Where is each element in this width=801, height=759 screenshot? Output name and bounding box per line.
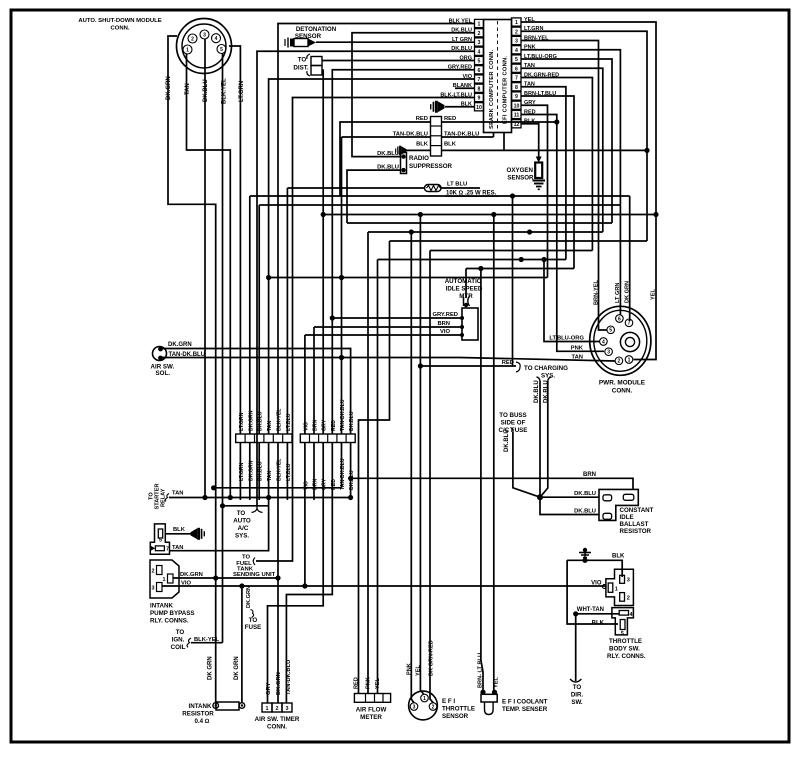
pin 3 of J1 xyxy=(200,30,209,39)
svg-text:GRY: GRY xyxy=(322,419,328,431)
junction dot h497 at DK.BLU drop xyxy=(202,495,207,500)
svg-text:RED: RED xyxy=(354,677,360,689)
red junction block (4-cell) xyxy=(431,117,442,157)
junction dot B3 throttle-sensor YEL xyxy=(418,212,423,217)
svg-text:SENSOR: SENSOR xyxy=(507,175,534,182)
wire GRY efi pin10 down to bus B10 xyxy=(521,105,548,277)
svg-text:10: 10 xyxy=(514,103,520,109)
svg-text:E F I COOLANT: E F I COOLANT xyxy=(502,699,548,706)
svg-text:MTR: MTR xyxy=(459,293,473,300)
svg-text:1: 1 xyxy=(163,577,166,583)
throttle sensor pin 2 xyxy=(429,703,437,711)
svg-text:4: 4 xyxy=(602,339,605,345)
svg-text:CONSTANT: CONSTANT xyxy=(620,507,654,514)
svg-text:BLK: BLK xyxy=(173,527,186,533)
svg-text:DK GRN: DK GRN xyxy=(625,281,631,303)
svg-text:TAN: TAN xyxy=(172,491,183,497)
svg-text:BLK: BLK xyxy=(416,141,429,147)
wire RED efi pin11 down to pwr module PNK line xyxy=(521,115,604,352)
svg-text:IGN.: IGN. xyxy=(172,637,185,644)
wire ORG spark pin5 to to-dist upper box xyxy=(322,60,474,62)
svg-text:RLY. CONNS.: RLY. CONNS. xyxy=(607,653,646,660)
resistor 10K ohm body xyxy=(425,185,442,192)
throttle body pin 4 slot xyxy=(619,611,628,616)
fuel tank hook xyxy=(253,558,255,566)
svg-text:11: 11 xyxy=(514,113,520,119)
wire YEL branch B3 to throttle pin1 xyxy=(420,215,423,695)
svg-text:RED: RED xyxy=(331,420,337,431)
wire DK.BLU spark pin2 to radio suppressor top xyxy=(352,33,474,157)
svg-text:1: 1 xyxy=(615,587,618,593)
wire LT.GRN efi pin2 down to bus B6 xyxy=(521,31,647,241)
svg-text:BLK.YEL: BLK.YEL xyxy=(222,78,228,104)
svg-text:2: 2 xyxy=(432,704,435,710)
to-dist connector boxes xyxy=(307,54,310,59)
wire DK.GRN-RED efi pin7 down to bus B7 xyxy=(521,78,592,251)
wire DK.BLU charging 2 down to ballast junction xyxy=(548,377,552,381)
svg-text:DK GRN: DK GRN xyxy=(234,656,240,680)
wire VIO pump bypass pin3 to throttle body sw pin1 xyxy=(162,585,607,587)
svg-text:3: 3 xyxy=(478,40,481,46)
junction dot ballast DK.BLU node xyxy=(537,494,543,500)
svg-text:DIR.: DIR. xyxy=(571,692,584,699)
svg-text:1: 1 xyxy=(423,696,426,702)
throttle body pin 5 slot xyxy=(620,620,625,630)
svg-text:6: 6 xyxy=(478,68,481,74)
svg-text:2: 2 xyxy=(618,359,621,365)
svg-text:5: 5 xyxy=(159,538,162,544)
junction dot B8 left xyxy=(519,257,524,262)
svg-text:5: 5 xyxy=(478,59,481,65)
junction dot VIO row2 branch xyxy=(302,583,307,588)
to buss hook xyxy=(511,428,514,433)
wire DK.BLU suppressor bottom to bus B4 xyxy=(347,170,401,223)
svg-text:GRY: GRY xyxy=(266,683,272,695)
svg-text:DK.GRN: DK.GRN xyxy=(166,76,172,100)
bus wire B10 relay col to efi GRY xyxy=(269,277,548,279)
svg-text:4: 4 xyxy=(515,48,518,54)
svg-text:TEMP. SENSER: TEMP. SENSER xyxy=(502,706,548,713)
svg-text:EFI COMPUTER CONN.: EFI COMPUTER CONN. xyxy=(503,56,509,124)
junction dot VIO fuse branch xyxy=(239,583,244,588)
svg-text:CONN.: CONN. xyxy=(111,26,130,32)
svg-text:BLK: BLK xyxy=(592,621,605,627)
throttle body sw upper connector body xyxy=(606,569,634,605)
wire YEL efi pin1 to pwr module pin1 xyxy=(521,22,656,360)
relay pin 5 slot xyxy=(158,529,162,538)
svg-text:2: 2 xyxy=(627,596,630,602)
svg-text:DIST.: DIST. xyxy=(293,65,308,72)
svg-text:YEL: YEL xyxy=(375,678,381,689)
wire LT.BLU-ORG riser to pwr module pin4 xyxy=(544,260,600,342)
svg-text:VIO: VIO xyxy=(591,581,602,587)
junction dot h487 left xyxy=(211,485,216,490)
oxygen sensor body xyxy=(536,157,542,163)
svg-text:ORG: ORG xyxy=(459,55,472,61)
svg-text:IDLE SPEED: IDLE SPEED xyxy=(446,286,483,293)
wire DK.BLU charging 1 down to ballast junction xyxy=(537,377,541,381)
wire TAN starter relay line h497 xyxy=(169,497,351,499)
junction dot RED block tie xyxy=(554,119,559,124)
junction dot B9 coolant BRN-LT.BLU xyxy=(478,266,483,271)
svg-text:DK GRN: DK GRN xyxy=(208,656,214,680)
svg-text:5: 5 xyxy=(621,631,624,637)
svg-text:PWR. MODULE: PWR. MODULE xyxy=(599,380,646,387)
svg-text:4: 4 xyxy=(215,36,218,42)
automatic idle speed motor body xyxy=(462,308,478,340)
svg-text:1: 1 xyxy=(266,706,269,712)
constant idle ballast resistor body (L-shape) xyxy=(599,489,638,520)
pwr module pin 6 xyxy=(616,315,624,323)
bus wire B8 airflow YEL to efi TAN8 xyxy=(378,259,566,261)
svg-text:LT GRN: LT GRN xyxy=(615,283,621,303)
wire GRY below row2 to timer pin1 xyxy=(268,443,324,704)
junction dot B5 charging DK.BLU xyxy=(527,229,532,234)
svg-text:METER: METER xyxy=(360,714,382,721)
wire BLK.YEL from J1 pin5 to ignition coil xyxy=(222,53,224,643)
wire stub spark box bottom to TAN-DK.BLU xyxy=(493,133,495,138)
wire BLANK stub spark pin8 xyxy=(455,87,474,89)
wire BLK spark pin10 to capacitor xyxy=(445,106,474,108)
wire DK.GRN air sw sol to row2 pos6 xyxy=(162,349,351,435)
detonation sensor symbol xyxy=(285,38,316,48)
bus wire B7 throttle pin2 to efi DK.GRN-RED xyxy=(430,250,592,252)
bus wire B2 row1-pos3 xyxy=(259,204,620,206)
svg-text:DK.BLU: DK.BLU xyxy=(574,508,596,514)
svg-text:4: 4 xyxy=(478,49,481,55)
throttle body ground xyxy=(579,553,591,558)
wire BRN-YEL efi pin3 down to pwr module pin5 xyxy=(521,41,607,331)
pwr module pin 3 xyxy=(605,348,613,356)
wire VIO to idle speed motor xyxy=(305,334,462,336)
bus wire B6 airflow RED to efi LT.GRN xyxy=(390,240,648,242)
wire GRY.RED spark pin6 down to row2 pos4 xyxy=(332,70,474,434)
svg-text:TO: TO xyxy=(242,555,250,561)
svg-text:9: 9 xyxy=(515,94,518,100)
svg-text:5: 5 xyxy=(515,57,518,63)
svg-text:RED: RED xyxy=(444,116,456,122)
svg-text:E F I: E F I xyxy=(442,698,455,705)
spark/efi computer connector body xyxy=(484,20,512,133)
svg-text:LT.BLU-ORG: LT.BLU-ORG xyxy=(549,336,584,342)
junction dot h506 left xyxy=(220,503,225,508)
junction dot on BLK-YEL at DK.GRN pump line xyxy=(275,575,280,580)
throttle body pin 3 slot xyxy=(620,575,625,583)
svg-text:SPARK COMPUTER CONN.: SPARK COMPUTER CONN. xyxy=(489,49,495,129)
wire BLK ground to throttle body pin3 xyxy=(567,560,622,577)
pwr module center post xyxy=(620,332,639,351)
svg-text:RESISTOR: RESISTOR xyxy=(182,711,214,718)
svg-text:VIO: VIO xyxy=(303,422,309,431)
wire row2 pos5 riser xyxy=(341,137,343,434)
wire DK.GRN from J1 left to pump bypass / intank resistor xyxy=(168,36,216,703)
wire TAN-DK.BLU below row2 to junction line xyxy=(341,443,343,488)
svg-text:7: 7 xyxy=(628,321,631,327)
svg-text:BRN: BRN xyxy=(437,321,450,327)
svg-text:DK.BLU: DK.BLU xyxy=(574,491,596,497)
relay connector body (pins 5,7) xyxy=(150,524,169,554)
wire DK.BLU below row1 stub xyxy=(258,443,260,501)
wire DK.BLU buss to ballast junction xyxy=(513,432,540,497)
air sw timer connector body xyxy=(262,703,272,712)
svg-text:3: 3 xyxy=(607,350,610,356)
bus wire B3 (YEL net) to pwr module YEL xyxy=(323,214,656,216)
wire branch B5 to throttle sensor pin3 xyxy=(411,232,414,703)
svg-text:SIDE OF: SIDE OF xyxy=(501,420,526,427)
svg-text:IDLE: IDLE xyxy=(620,514,634,521)
junction wire h487 xyxy=(214,487,342,489)
svg-text:8: 8 xyxy=(515,85,518,91)
svg-text:3: 3 xyxy=(152,586,155,592)
svg-text:3: 3 xyxy=(515,39,518,45)
svg-text:AUTOMATIC: AUTOMATIC xyxy=(445,278,482,285)
svg-text:6: 6 xyxy=(515,66,518,72)
svg-text:BRN-YEL: BRN-YEL xyxy=(594,280,600,305)
wire TAN efi pin8 down to bus B8 xyxy=(521,87,566,260)
svg-text:PNK: PNK xyxy=(571,345,584,351)
wire TAN-DK.BLU left of block to row2 pos5 col xyxy=(342,136,431,138)
wire LT.GRN from J1 to connector row 1 pos1 xyxy=(229,46,240,434)
wire BLK bus xyxy=(442,149,648,151)
svg-text:TAN-DK.BLU: TAN-DK.BLU xyxy=(286,660,292,695)
svg-text:SOL.: SOL. xyxy=(156,370,171,377)
svg-text:SW.: SW. xyxy=(571,699,583,706)
wire LT.BLU-ORG efi pin5 down to bus B4 xyxy=(521,59,612,223)
svg-text:TAN: TAN xyxy=(185,83,191,95)
svg-text:DK.BLU: DK.BLU xyxy=(377,151,399,157)
svg-text:BLK: BLK xyxy=(444,141,457,147)
wire BRN-LT.BLU efi pin9 down to bus B9 xyxy=(521,96,574,269)
svg-text:1: 1 xyxy=(628,357,631,363)
junction dot B10 on TAN-DK.BLU column xyxy=(339,275,344,280)
junction dot TAN-DK.BLU to row2 pos5 xyxy=(339,355,344,360)
wire VIO spark pin7 to row1 pos4 xyxy=(269,79,474,434)
junction dot GRY.RED col at motor line xyxy=(330,315,335,320)
ign coil hook xyxy=(187,638,191,647)
bus wire B1 (BRN-YEL net) row1-pos2 to efi pin3 xyxy=(250,195,630,197)
junction dot YEL bus xyxy=(653,212,658,217)
svg-text:THROTTLE: THROTTLE xyxy=(442,706,475,713)
pwr module connector body xyxy=(590,306,651,375)
svg-text:7: 7 xyxy=(166,546,169,552)
svg-text:3: 3 xyxy=(627,578,630,584)
svg-text:2: 2 xyxy=(191,36,194,42)
svg-text:CONN.: CONN. xyxy=(267,724,287,731)
wire RED below row2 to timer pin3 xyxy=(286,443,332,704)
wire BLK down-left to pin5 xyxy=(567,560,618,624)
svg-text:DK.GRN: DK.GRN xyxy=(248,410,254,431)
wire PNK efi pin4 down through B2 to pwr module pin6 xyxy=(521,50,620,315)
wire DK.BLU from J1 pin3 down xyxy=(204,39,206,498)
svg-text:SYS.: SYS. xyxy=(235,533,249,540)
to charging hook xyxy=(516,362,520,372)
wire BLK efi pin12 down to oxygen sensor xyxy=(521,124,539,158)
junction dot WHT-TAN at dir-sw riser xyxy=(573,611,578,616)
pump bypass pin 3 xyxy=(157,583,163,592)
svg-text:YEL: YEL xyxy=(494,677,500,688)
air sw solenoid body xyxy=(153,347,167,361)
wire BLK relay to capacitor xyxy=(165,533,191,535)
wire branch B3 to coolant sensor pin2 xyxy=(493,215,495,692)
svg-text:TO BUSS: TO BUSS xyxy=(499,412,526,419)
wire branch B9 to coolant sensor pin1 xyxy=(481,269,483,692)
junction dot h497 right xyxy=(348,495,353,500)
svg-text:PNK: PNK xyxy=(366,677,372,689)
throttle body pin 2 slot xyxy=(620,593,625,602)
spark computer connector pin column (pins 1-10) xyxy=(475,19,484,27)
pin 4 of J1 xyxy=(212,34,221,43)
svg-text:DK.BLU: DK.BLU xyxy=(203,79,209,102)
efi throttle sensor body xyxy=(409,691,438,720)
svg-text:5: 5 xyxy=(220,47,223,53)
wire WHT-TAN to pin4 xyxy=(576,613,620,615)
svg-text:BLK-YEL: BLK-YEL xyxy=(277,408,283,431)
bus wire B9 idle-speed-mtr to efi BRN-LT.BLU xyxy=(466,268,574,270)
wire BRN row2 pos6 to ballast resistor xyxy=(351,478,633,489)
wire VIO below row2 to throttle-body VIO line xyxy=(304,443,306,587)
wire BLK YEL spark pin1 to row1 pos5 xyxy=(278,24,474,435)
svg-text:LT.GRN: LT.GRN xyxy=(239,81,245,102)
junction dot LT.BLU-ORG riser at B8 xyxy=(541,257,546,262)
svg-text:CONN.: CONN. xyxy=(612,388,633,395)
svg-text:COIL: COIL xyxy=(171,644,186,651)
wire DK.BLU spark pin4 to auto A/C xyxy=(257,51,474,506)
wire DK.BLU node to ballast upper-left xyxy=(540,496,599,498)
pin 1 of J1 xyxy=(183,45,192,54)
wire DK.BLU to-buss branch from B1 xyxy=(512,196,514,366)
pin 2 of J1 xyxy=(188,34,197,43)
svg-text:DK.BLU: DK.BLU xyxy=(544,380,550,403)
svg-text:0.4 Ω: 0.4 Ω xyxy=(194,718,209,725)
capacitor on relay BLK xyxy=(191,528,206,540)
wire DK.GRN branch to intank resistor right xyxy=(241,586,243,703)
capacitor on BLK wire xyxy=(395,146,406,155)
svg-text:RED: RED xyxy=(416,116,428,122)
throttle body sw lower connector body xyxy=(612,608,634,635)
svg-text:2: 2 xyxy=(478,31,481,37)
svg-text:INTANK: INTANK xyxy=(189,703,212,710)
svg-text:DK GRN-RED: DK GRN-RED xyxy=(429,640,435,676)
svg-text:1: 1 xyxy=(186,47,189,53)
auto shut-down module connector J1 body xyxy=(177,19,232,74)
svg-text:1: 1 xyxy=(478,22,481,28)
inline connector row 2 strip xyxy=(300,434,355,443)
wire RED left of block xyxy=(340,122,431,196)
oxygen sensor ground xyxy=(533,181,546,190)
intank pump bypass connector body xyxy=(150,560,179,598)
svg-text:GRY.RED: GRY.RED xyxy=(432,312,458,318)
svg-text:WHT-TAN: WHT-TAN xyxy=(577,607,604,613)
svg-text:RADIO: RADIO xyxy=(409,155,429,162)
throttle body pin 1 slot xyxy=(608,583,613,592)
svg-text:TO: TO xyxy=(176,629,185,636)
svg-text:DK.BLU: DK.BLU xyxy=(504,429,510,452)
dir sw hook xyxy=(570,679,581,682)
throttle sensor pin 1 xyxy=(421,694,429,702)
svg-text:A/C: A/C xyxy=(238,525,249,532)
junction dot B5 throttle PNK xyxy=(409,229,414,234)
svg-text:DK.BLU: DK.BLU xyxy=(258,411,264,431)
svg-text:7: 7 xyxy=(478,77,481,83)
svg-text:AUTO: AUTO xyxy=(233,518,251,525)
svg-text:DK.BLU: DK.BLU xyxy=(534,380,540,403)
wire to dir sw xyxy=(575,614,577,681)
starter relay hook xyxy=(165,494,169,502)
pwr module pin 2 xyxy=(615,357,623,365)
wire TAN below row1 to relay pin7 xyxy=(170,443,269,551)
svg-text:THROTTLE: THROTTLE xyxy=(609,638,642,645)
junction dot B1 to-buss branch xyxy=(510,193,515,198)
junction dot B3 coolant YEL xyxy=(491,212,496,217)
wire LT BLU resistor right xyxy=(441,187,480,189)
svg-text:3: 3 xyxy=(413,704,416,710)
svg-text:VIO: VIO xyxy=(440,329,450,335)
efi coolant temp senser body xyxy=(480,690,485,695)
svg-text:DK.BLU: DK.BLU xyxy=(349,411,355,431)
svg-text:RESISTOR: RESISTOR xyxy=(620,528,652,535)
wire TAN-DK.BLU right stub xyxy=(442,136,494,138)
svg-text:SENSOR: SENSOR xyxy=(442,713,469,720)
junction dot h497 at TAN jog col xyxy=(228,495,233,500)
pwr module pin 7 xyxy=(625,319,633,327)
bus wire B5 airflow PNK to pwr BRN-YEL xyxy=(368,231,603,233)
wire LT BLU resistor left feeding row1-pos5 riser xyxy=(286,188,288,434)
wire RED right of block xyxy=(442,121,557,123)
svg-text:3: 3 xyxy=(203,32,206,38)
pwr module pin 5 xyxy=(607,326,615,334)
junction dot B3 at to-dist column xyxy=(321,212,326,217)
svg-text:TAN-DK.BLU: TAN-DK.BLU xyxy=(340,399,346,431)
wire DK.GRN pump bypass pin1 xyxy=(173,577,278,579)
svg-text:BRN: BRN xyxy=(583,472,596,478)
svg-text:DETONATION: DETONATION xyxy=(296,26,337,33)
svg-text:5: 5 xyxy=(609,328,612,334)
svg-text:LT.GRN: LT.GRN xyxy=(239,412,245,431)
wire stub efi box bottom to BLK bus xyxy=(503,133,505,151)
svg-text:FUSE: FUSE xyxy=(245,624,262,631)
throttle sensor pin 3 xyxy=(410,703,418,711)
wire BLK-YEL to ign coil xyxy=(191,642,223,644)
svg-text:TO: TO xyxy=(237,510,246,517)
junction dot RED on throttle YEL drop xyxy=(418,363,423,368)
svg-text:TO: TO xyxy=(573,684,582,691)
svg-text:DK.GRN: DK.GRN xyxy=(180,572,203,578)
pin 5 of J1 xyxy=(217,45,226,54)
wire from to-dist lower box down to connector row 2 pos3 xyxy=(322,70,323,434)
svg-text:BRN- LT BLU: BRN- LT BLU xyxy=(478,653,484,688)
svg-text:2: 2 xyxy=(515,29,518,35)
svg-text:PNK: PNK xyxy=(407,663,413,675)
bus wire B4 radio suppressor to efi LT.BLU-ORG xyxy=(347,222,612,224)
svg-text:TAN: TAN xyxy=(172,545,183,551)
wire LT.BLU below row1 stub xyxy=(286,443,288,501)
wire LT GRN detonation sensor to spark pin3 xyxy=(316,41,474,43)
svg-text:RELAY: RELAY xyxy=(161,488,167,507)
junction dot DK.BLU/BRN ballast xyxy=(348,476,353,481)
wire BLK-YEL below row1 to air-sw-timer pin2 xyxy=(277,443,279,704)
svg-text:TO: TO xyxy=(298,57,307,64)
svg-text:SENDING UNIT: SENDING UNIT xyxy=(233,572,276,578)
svg-text:AUTO. SHUT-DOWN MODULE: AUTO. SHUT-DOWN MODULE xyxy=(78,18,161,24)
svg-text:DK.GRN: DK.GRN xyxy=(276,672,282,695)
svg-text:LT.BLU: LT.BLU xyxy=(286,413,292,431)
svg-text:BALLAST: BALLAST xyxy=(620,521,649,528)
wire DK GRN pwr module pin7 riser from B1 xyxy=(629,196,631,321)
svg-text:2: 2 xyxy=(276,706,279,712)
junction dot BLK bus on LT.GRN drop xyxy=(644,148,649,153)
wire BLK-LT.BLU spark pin9 down to fuel tank sending unit xyxy=(256,98,474,562)
svg-text:BRN: BRN xyxy=(313,420,319,431)
